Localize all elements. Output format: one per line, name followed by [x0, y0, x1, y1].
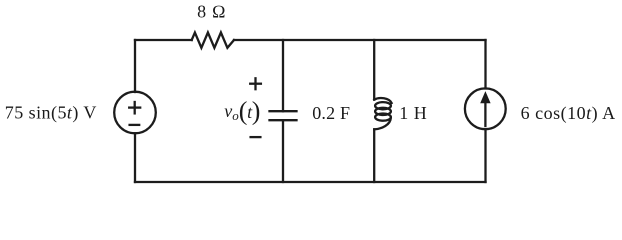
svg-text:0.2 F: 0.2 F	[312, 103, 350, 123]
capacitor polarity plus	[250, 83, 261, 85]
wire right vertical lower	[484, 129, 486, 182]
current source arrow shaft	[484, 100, 486, 126]
voltage source plus sign	[129, 106, 140, 108]
wire left vertical upper	[134, 40, 136, 92]
capacitor branch wire lower	[282, 120, 284, 182]
inductor L 1H coil with leads	[373, 40, 375, 100]
voltage source V1 circle	[114, 92, 156, 134]
capacitor branch wire upper	[282, 40, 284, 111]
wire top-right segment	[234, 39, 486, 41]
svg-text:75 sin(5t) V: 75 sin(5t) V	[5, 102, 97, 123]
capacitor polarity minus	[251, 136, 261, 138]
svg-text:8 Ω: 8 Ω	[197, 2, 226, 22]
wire left vertical lower	[134, 133, 136, 182]
wire right vertical upper	[484, 40, 486, 89]
current source arrow head	[480, 91, 490, 103]
wire top-left segment	[135, 39, 192, 41]
current source I1 circle	[465, 88, 506, 129]
capacitor C 0.2F bottom plate	[270, 119, 297, 121]
wire bottom	[135, 181, 486, 183]
svg-text:1 H: 1 H	[399, 103, 427, 123]
resistor R 8ohm zigzag	[192, 33, 234, 48]
svg-text:6 cos(10t) A: 6 cos(10t) A	[521, 103, 616, 124]
voltage source minus sign	[130, 124, 140, 126]
capacitor C 0.2F top plate	[270, 110, 297, 112]
